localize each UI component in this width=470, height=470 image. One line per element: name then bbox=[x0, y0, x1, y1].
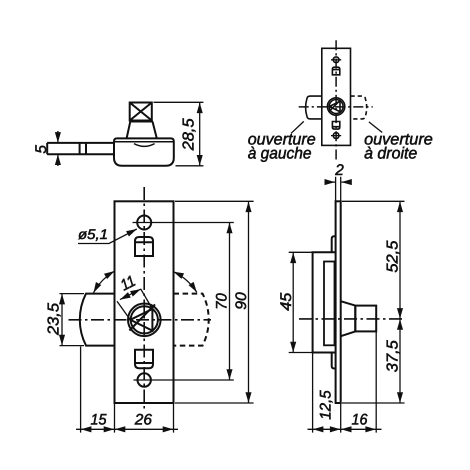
mini triangle bbox=[329, 101, 340, 111]
dim 52,5 line bbox=[399, 202, 401, 319]
cam arc bbox=[134, 144, 155, 147]
svg-text:52,5: 52,5 bbox=[384, 240, 401, 272]
left rotation arrow bbox=[94, 271, 115, 293]
svg-text:12,5: 12,5 bbox=[317, 390, 334, 420]
lock body bbox=[114, 138, 174, 165]
mini lower nut bbox=[332, 122, 339, 130]
mini cylinder outer bbox=[327, 98, 344, 115]
svg-text:à droite: à droite bbox=[364, 145, 417, 163]
mini top hole bbox=[333, 57, 339, 63]
dim 28,5 line bbox=[199, 103, 201, 166]
vertical centerline bbox=[143, 187, 145, 411]
face plate bbox=[115, 201, 174, 403]
mini right wing dashed bbox=[351, 96, 367, 119]
mini bottom hole bbox=[333, 133, 339, 139]
svg-text:90: 90 bbox=[233, 292, 250, 310]
horizontal centerline bbox=[69, 319, 212, 321]
face plate edge-on bbox=[336, 201, 341, 403]
svg-text:26: 26 bbox=[134, 412, 153, 429]
bolt bar bbox=[47, 143, 114, 154]
dim 37,5 line bbox=[399, 319, 401, 403]
leader ø5,1 bbox=[78, 229, 137, 244]
bottom-right side view bbox=[313, 201, 377, 403]
lower nut tab bbox=[332, 353, 336, 369]
mini chord bbox=[329, 100, 340, 111]
top-left side view of lock bbox=[47, 103, 174, 166]
side horizontal centerline bbox=[299, 318, 403, 320]
dim 2 arrows bbox=[325, 181, 335, 183]
bottom extension lines bbox=[81, 347, 174, 433]
body face line bbox=[114, 141, 173, 143]
bottom dim line 15 and 26 bbox=[81, 428, 114, 430]
cylinder inner circle bbox=[131, 306, 158, 333]
mini vertical centerline bbox=[335, 40, 337, 159]
dim 45 line bbox=[292, 253, 294, 353]
svg-text:16: 16 bbox=[352, 412, 368, 429]
dim 70 line bbox=[229, 223, 231, 380]
bottom hole crosshair extension to dim 70 bbox=[134, 379, 234, 381]
mini left wing solid bbox=[306, 96, 322, 119]
svg-text:23,5: 23,5 bbox=[45, 303, 62, 336]
square spindle with X bbox=[130, 103, 152, 121]
svg-text:15: 15 bbox=[91, 411, 108, 428]
triangular recess bbox=[130, 309, 152, 331]
front view of lock bbox=[80, 201, 209, 403]
leader left bbox=[291, 121, 304, 133]
dim 28,5 extension lines bbox=[154, 102, 204, 166]
upper nut tab bbox=[332, 236, 336, 252]
case bottom extension bbox=[289, 352, 313, 354]
top screw hole bbox=[137, 216, 151, 230]
dim 11 line bbox=[120, 289, 141, 300]
plate top extension right bbox=[342, 200, 405, 202]
mini upper nut bbox=[332, 67, 339, 75]
svg-text:70: 70 bbox=[214, 293, 231, 310]
dim 5 extension lines bbox=[47, 143, 66, 154]
dim 23,5 line bbox=[61, 294, 63, 345]
dim 5 arrows bbox=[57, 131, 59, 143]
svg-text:ø5,1: ø5,1 bbox=[78, 226, 108, 242]
case top extension bbox=[289, 251, 313, 253]
bolt bar edge-on bbox=[324, 262, 335, 346]
right wing dashed bbox=[174, 294, 209, 346]
leader right bbox=[369, 122, 382, 133]
diagonal chord bbox=[129, 304, 155, 330]
right rotation arrow bbox=[173, 272, 197, 293]
plate bottom extension to dim 90 bbox=[175, 402, 254, 404]
left wing solid bbox=[80, 294, 115, 346]
bottom dim line 12,5 and 16 bbox=[313, 428, 341, 430]
svg-text:37,5: 37,5 bbox=[384, 340, 401, 372]
mini hole ticks bbox=[331, 60, 341, 136]
dim 11 extension lines bbox=[117, 289, 152, 320]
svg-text:à gauche: à gauche bbox=[248, 145, 312, 163]
dim 90 line bbox=[248, 202, 250, 403]
spindle collar bbox=[127, 122, 157, 139]
dim 23,5 extension lines bbox=[60, 294, 85, 346]
svg-text:5: 5 bbox=[33, 145, 50, 154]
spindle shaft bbox=[355, 306, 376, 332]
mini face plate bbox=[322, 48, 351, 145]
top mini front view bbox=[306, 48, 367, 145]
mini horizontal centerline bbox=[299, 106, 373, 108]
bottom screw hole bbox=[138, 373, 151, 386]
spindle boss bbox=[341, 301, 356, 336]
top hole crosshair extension to dim 70 bbox=[133, 222, 234, 224]
svg-text:28,5: 28,5 bbox=[181, 118, 198, 151]
lock case bbox=[313, 252, 336, 352]
mini cylinder inner bbox=[329, 100, 343, 114]
upper guide nut bbox=[135, 237, 153, 256]
lower guide nut bbox=[135, 350, 153, 368]
bottom extension lines bbox=[313, 331, 377, 432]
cylinder outer circle bbox=[128, 304, 161, 337]
plate bottom extension right bbox=[342, 402, 405, 404]
svg-text:45: 45 bbox=[278, 292, 295, 310]
svg-text:2: 2 bbox=[334, 162, 344, 179]
dim 2 extension lines bbox=[336, 177, 341, 202]
plate top extension to dim 90 bbox=[175, 200, 254, 202]
